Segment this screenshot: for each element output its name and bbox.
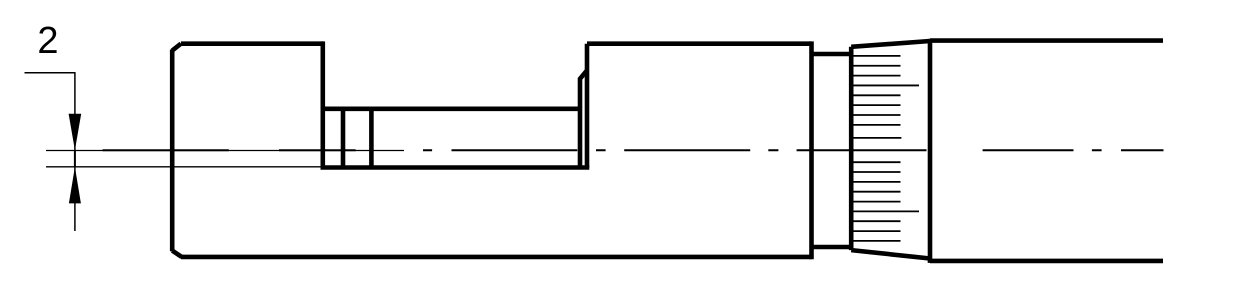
dimension line (vertical, between arrow tips) — [74, 150, 76, 167]
dimension leader line — [25, 72, 75, 74]
anvil face line 2 — [369, 109, 374, 168]
anvil face line 1 — [341, 109, 346, 168]
frame top-left chamfer — [172, 44, 181, 51]
frame bottom-left chamfer — [172, 251, 182, 257]
knurl ticks lower group — [853, 162, 919, 241]
dimension line (vertical, lower tail) — [74, 167, 76, 231]
frame right jaw right edge — [809, 41, 814, 259]
barrel top edge — [930, 38, 1163, 43]
measured rod bottom edge — [46, 166, 323, 168]
frame right jaw inner edge — [585, 44, 590, 168]
frame left jaw inner edge — [320, 41, 325, 167]
lock ring top edge — [812, 52, 852, 57]
thimble right edge — [928, 39, 933, 263]
frame bottom edge — [181, 255, 812, 260]
thimble left edge — [849, 47, 854, 250]
knurl ticks upper group — [853, 56, 919, 138]
barrel bottom edge — [930, 259, 1163, 264]
spindle step edge — [580, 71, 587, 168]
thimble bottom edge — [851, 250, 930, 258]
thimble top edge — [851, 41, 930, 47]
frame left edge — [170, 50, 175, 252]
frame left jaw top edge — [181, 41, 323, 46]
frame right jaw top edge — [587, 41, 812, 46]
anvil section bottom edge — [321, 165, 590, 170]
lock ring bottom edge — [812, 245, 852, 250]
arrowhead down — [69, 114, 82, 150]
svg-text:2: 2 — [37, 20, 58, 62]
dimension line (vertical, upper segment) — [74, 72, 76, 150]
anvil section top edge — [323, 107, 580, 112]
arrowhead up — [69, 167, 81, 204]
centerline (dash-dot axis) — [103, 149, 1164, 151]
measured rod top edge — [46, 150, 404, 152]
